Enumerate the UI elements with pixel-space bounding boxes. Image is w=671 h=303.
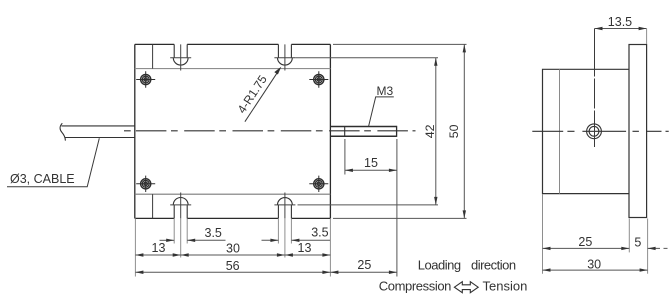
- svg-text:25: 25: [357, 258, 371, 272]
- svg-text:3.5: 3.5: [205, 226, 222, 240]
- bottom slot left centermarks: [170, 193, 191, 219]
- dimension 30 side: [543, 269, 648, 271]
- svg-text:56: 56: [226, 259, 240, 273]
- extension lines below body: [135, 218, 330, 276]
- bottom slot right centermarks: [274, 193, 295, 219]
- bottom slot right: [278, 198, 293, 219]
- svg-text:Ø3, CABLE: Ø3, CABLE: [10, 172, 75, 186]
- dimension 50: [333, 44, 467, 218]
- svg-text:30: 30: [226, 241, 240, 255]
- dimension row 13 / 30 / 13: [135, 254, 330, 256]
- dimension 56: [135, 271, 330, 273]
- dimension 25 rod: [330, 271, 397, 273]
- double arrow: [454, 282, 478, 293]
- svg-text:M3: M3: [377, 84, 394, 98]
- dimension 5 side: [648, 247, 668, 249]
- screw hole top-right: [309, 71, 328, 87]
- svg-text:3.5: 3.5: [311, 226, 328, 240]
- svg-text:15: 15: [364, 156, 378, 170]
- side view hole circles: [587, 124, 602, 139]
- svg-text:5: 5: [634, 236, 641, 250]
- top slot right: [278, 44, 293, 65]
- bottom-left step vertical: [152, 194, 154, 218]
- screw hole bottom-right: [309, 176, 328, 192]
- side view bottom extension lines: [543, 195, 648, 274]
- dimension 3.5 right: [262, 239, 331, 241]
- horizontal centerline front view: [124, 130, 416, 132]
- svg-text:30: 30: [587, 258, 601, 272]
- cable: [60, 123, 135, 140]
- svg-text:13.5: 13.5: [608, 15, 632, 29]
- leader 4-R1.75: [245, 70, 279, 122]
- top step line: [135, 68, 331, 70]
- bottom step line: [135, 193, 331, 195]
- top slot left centermarks: [170, 44, 191, 70]
- side view horizontal centerline: [532, 130, 668, 132]
- dimension 42: [296, 58, 439, 205]
- svg-text:Tension: Tension: [483, 278, 528, 293]
- svg-text:13: 13: [152, 241, 166, 255]
- side view flange: [629, 45, 647, 218]
- svg-text:42: 42: [423, 124, 437, 138]
- front view body outline: [135, 44, 331, 218]
- top slot left: [173, 44, 188, 65]
- M3 threaded rod: [330, 126, 396, 137]
- dimension 13.5: [595, 28, 647, 30]
- screw hole top-left: [136, 71, 155, 87]
- bottom slot left: [173, 197, 188, 218]
- top-left step vertical: [152, 44, 154, 68]
- svg-text:13: 13: [298, 241, 312, 255]
- dimension 25 side: [543, 247, 630, 249]
- side view body: [543, 69, 630, 193]
- svg-text:50: 50: [447, 124, 461, 138]
- dimension 3.5 left: [160, 239, 226, 241]
- svg-text:Compression: Compression: [379, 279, 451, 294]
- side view vertical centerline: [594, 29, 596, 148]
- dimension 15: [345, 139, 397, 277]
- svg-text:Loading direction: Loading direction: [418, 258, 516, 273]
- svg-text:25: 25: [578, 235, 592, 249]
- side view inner vertical: [559, 69, 561, 193]
- top slot right centermarks: [274, 44, 295, 70]
- screw hole bottom-left: [136, 176, 155, 192]
